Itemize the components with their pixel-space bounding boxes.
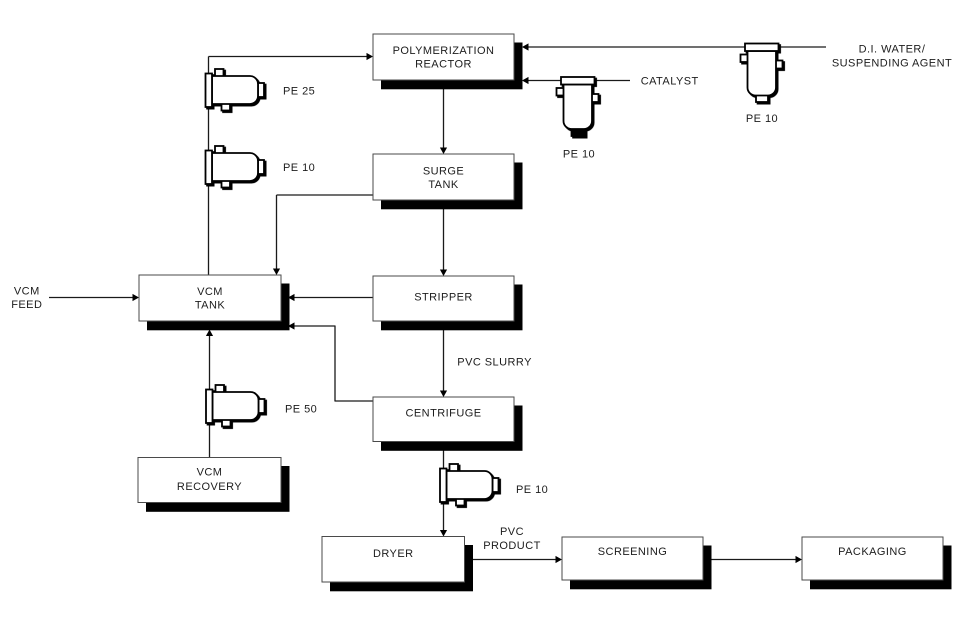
svg-text:PE 10: PE 10 <box>563 149 595 161</box>
svg-text:PE 10: PE 10 <box>283 162 315 174</box>
process: VCM TANK box <box>139 275 281 321</box>
label PE 10 D.I. water <box>746 113 778 125</box>
svg-text:PVC: PVC <box>500 526 524 538</box>
wire: D.I. water line into reactor <box>522 43 826 50</box>
svg-text:STRIPPER: STRIPPER <box>414 291 473 303</box>
process: PACKAGING box <box>802 537 943 580</box>
svg-text:PACKAGING: PACKAGING <box>838 546 907 558</box>
svg-text:FEED: FEED <box>11 299 42 311</box>
wire: screening to packaging <box>711 556 802 563</box>
svg-text:PE 25: PE 25 <box>283 85 315 97</box>
label PE 50 <box>285 404 317 416</box>
process: VCM RECOVERY box shadow <box>146 466 290 512</box>
filter PE 10 catalyst (vertical) <box>557 77 599 136</box>
process: SURGE TANK box <box>373 154 514 200</box>
label PVC PRODUCT <box>483 526 541 552</box>
svg-text:CENTRIFUGE: CENTRIFUGE <box>406 407 482 419</box>
svg-text:PE 10: PE 10 <box>516 484 548 496</box>
wire: stripper to VCM tank <box>288 294 373 301</box>
process: DRYER box <box>322 537 465 583</box>
svg-text:REACTOR: REACTOR <box>415 59 472 71</box>
process: SCREENING box shadow <box>570 546 712 590</box>
process: SURGE TANK box shadow <box>381 163 523 210</box>
label PE 10 left <box>283 162 315 174</box>
svg-text:VCM: VCM <box>14 285 40 297</box>
wire: catalyst line into reactor <box>522 77 630 84</box>
svg-text:VCM: VCM <box>197 286 223 298</box>
process: POLYMERIZATION REACTOR box <box>373 34 514 80</box>
filter PE 50 (horizontal) <box>206 385 265 427</box>
svg-text:TANK: TANK <box>195 300 226 312</box>
label PE 10 bottom <box>516 484 548 496</box>
wire: dryer to screening <box>473 556 563 563</box>
wire: stripper to centrifuge (PVC slurry) <box>440 329 447 397</box>
wire: centrifuge return to VCM tank <box>288 322 373 401</box>
wire: reactor to surge tank <box>440 88 447 154</box>
svg-text:D.I. WATER/: D.I. WATER/ <box>859 44 926 56</box>
filter PE 25 (horizontal) <box>206 69 265 111</box>
wire: left feed line to reactor <box>209 53 374 60</box>
wire: VCM recovery to VCM tank <box>206 330 213 458</box>
process: VCM TANK box shadow <box>147 284 290 331</box>
process: STRIPPER box <box>373 276 514 321</box>
svg-text:SCREENING: SCREENING <box>598 546 667 558</box>
svg-text:RECOVERY: RECOVERY <box>177 481 242 493</box>
label PE 25 <box>283 85 315 97</box>
process: SCREENING box <box>562 537 703 580</box>
svg-text:PVC SLURRY: PVC SLURRY <box>457 357 532 369</box>
filter PE 10 D.I. water (vertical) <box>741 44 783 103</box>
wire: left vertical main line <box>208 57 210 276</box>
wire: surge tank to stripper <box>440 208 447 276</box>
label PVC SLURRY <box>457 357 532 369</box>
label VCM FEED <box>11 285 42 311</box>
label PE 10 catalyst <box>563 149 595 161</box>
process: STRIPPER box shadow <box>381 285 523 331</box>
wire: centrifuge to dryer <box>440 450 447 537</box>
label D.I. WATER / SUSPENDING AGENT <box>832 44 952 70</box>
filter PE 10 bottom (horizontal) <box>440 464 499 506</box>
svg-text:TANK: TANK <box>428 179 459 191</box>
svg-text:VCM: VCM <box>197 467 223 479</box>
process: PACKAGING box shadow <box>810 546 952 590</box>
process: CENTRIFUGE box shadow <box>381 406 523 451</box>
svg-text:PE 50: PE 50 <box>285 404 317 416</box>
svg-text:PRODUCT: PRODUCT <box>483 540 541 552</box>
svg-text:CATALYST: CATALYST <box>641 75 699 87</box>
label CATALYST <box>641 75 699 87</box>
svg-text:SUSPENDING AGENT: SUSPENDING AGENT <box>832 58 952 70</box>
svg-text:PE 10: PE 10 <box>746 113 778 125</box>
wire: surge tank to VCM tank elbow <box>273 195 373 275</box>
svg-text:DRYER: DRYER <box>373 548 414 560</box>
wire: VCM feed into VCM tank <box>49 294 139 301</box>
process: POLYMERIZATION REACTOR box shadow <box>381 43 523 90</box>
filter PE 10 left (horizontal) <box>206 146 265 188</box>
process: CENTRIFUGE box <box>373 397 514 442</box>
process: DRYER box shadow <box>330 545 473 591</box>
process: VCM RECOVERY box <box>138 458 281 503</box>
svg-text:SURGE: SURGE <box>423 166 464 178</box>
svg-text:POLYMERIZATION: POLYMERIZATION <box>393 45 495 57</box>
